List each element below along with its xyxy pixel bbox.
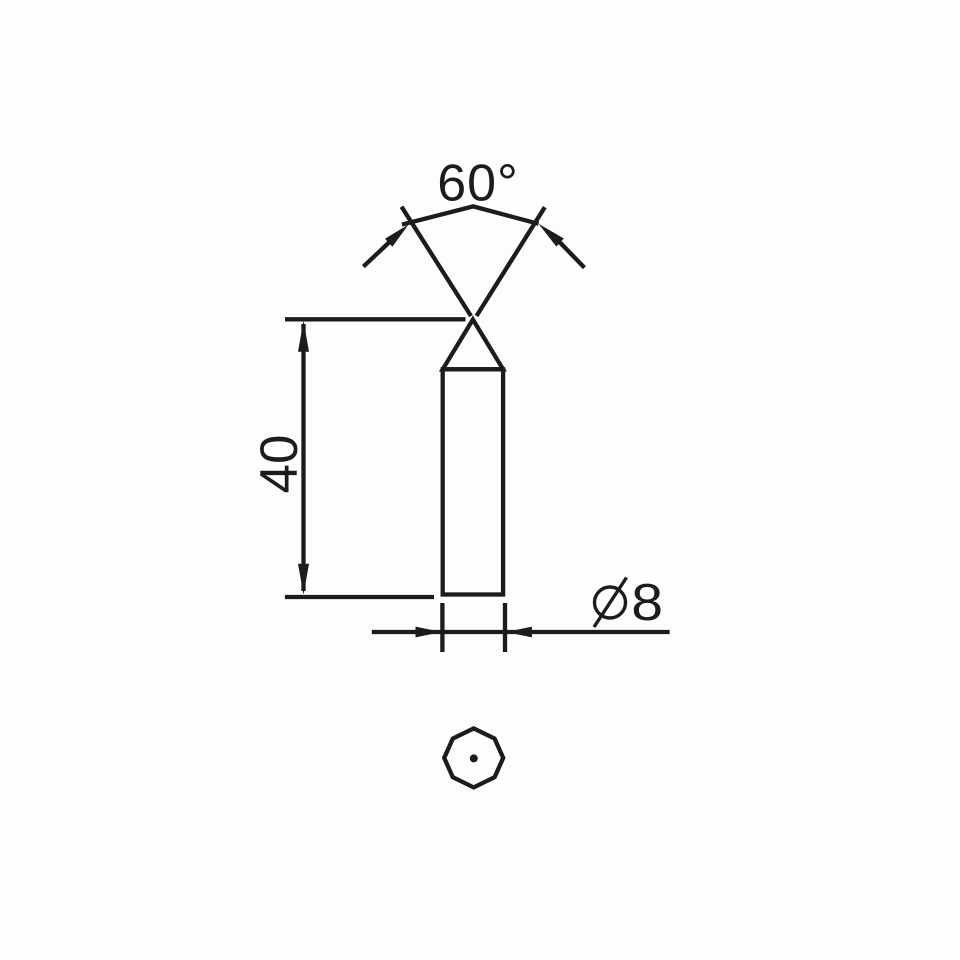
svg-text:8: 8 [631,573,663,631]
svg-text:40: 40 [250,435,309,494]
svg-text:60°: 60° [437,155,519,213]
